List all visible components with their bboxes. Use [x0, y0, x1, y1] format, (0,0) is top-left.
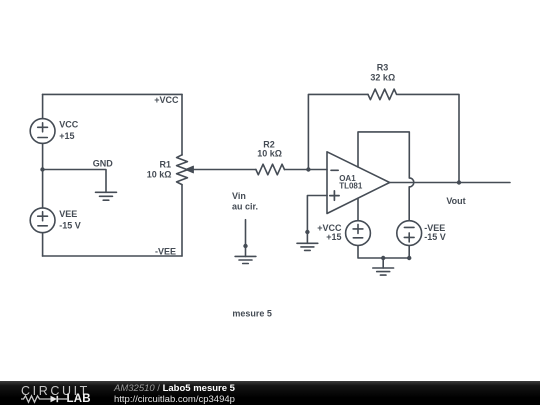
svg-text:-15 V: -15 V	[59, 220, 81, 230]
wire bottom rail left loop	[43, 255, 183, 257]
CircuitLab logo zigzag and diode	[21, 394, 68, 404]
op-amp minus input glyph	[331, 169, 338, 171]
resistor R1 10k potentiometer zigzag	[177, 155, 188, 185]
svg-text:+15: +15	[326, 232, 341, 242]
svg-text:VEE: VEE	[59, 209, 77, 219]
CircuitLab logo CIRCUIT	[21, 384, 90, 398]
ground at supply rail	[373, 258, 394, 275]
CircuitLab banner	[0, 381, 540, 405]
node dot Vin ground	[243, 244, 247, 248]
node junction at output	[457, 180, 461, 184]
wire hop over output wire	[409, 178, 414, 187]
potentiometer R1 wiper arrow	[185, 166, 256, 173]
svg-text:au cir.: au cir.	[232, 202, 258, 212]
svg-text:+VCC: +VCC	[154, 95, 179, 105]
voltage source V4 -VEE -15 V	[397, 221, 422, 246]
banner url text	[114, 394, 235, 405]
wire left rail (VCC/VEE column)	[42, 94, 44, 256]
svg-text:32 kΩ: 32 kΩ	[370, 72, 395, 82]
CircuitLab logo LAB	[67, 393, 91, 405]
svg-text:+15: +15	[59, 131, 74, 141]
voltage source V3 +VCC +15	[346, 221, 371, 246]
wire top rail left loop	[43, 93, 183, 95]
node dot supply rail right corner	[407, 256, 411, 260]
svg-text:10 kΩ: 10 kΩ	[147, 170, 172, 180]
resistor R2 10k zigzag	[256, 164, 285, 175]
node dot supply rail at ground	[381, 256, 385, 260]
wire R2 to op-amp inverting input	[285, 169, 328, 171]
wire GND branch	[43, 170, 107, 193]
svg-text:GND: GND	[93, 158, 114, 168]
ground at non-inverting input	[297, 232, 318, 250]
svg-text:10 kΩ: 10 kΩ	[257, 149, 282, 159]
svg-text:Vout: Vout	[446, 196, 465, 206]
op-amp plus input glyph	[330, 191, 339, 200]
svg-text:-15 V: -15 V	[424, 232, 446, 242]
wire R3 feedback left vertical	[308, 94, 368, 169]
wire supply bottom rail	[358, 246, 409, 259]
wire op-amp V- pin to +VCC source	[357, 198, 359, 220]
voltage source V2 VEE -15 V	[30, 208, 55, 233]
svg-text:R1: R1	[159, 160, 171, 170]
svg-text:TL081: TL081	[339, 182, 363, 191]
svg-text:VCC: VCC	[59, 120, 79, 130]
resistor R3 32k zigzag	[368, 89, 397, 100]
svg-text:mesure 5: mesure 5	[232, 308, 272, 318]
wire hop to -VEE source	[408, 187, 410, 221]
wire op-amp V+ pin routing over output	[358, 132, 409, 178]
wire R3 feedback right vertical to output	[397, 94, 459, 182]
wire op-amp non-inverting input to ground	[307, 196, 327, 233]
node dot above ground (non-inverting input)	[305, 230, 309, 234]
svg-text:-VEE: -VEE	[155, 246, 176, 256]
ground GND symbol	[96, 192, 117, 200]
svg-text:Vin: Vin	[232, 191, 246, 201]
node junction at left rail GND branch	[40, 167, 44, 171]
banner title text	[114, 383, 235, 394]
voltage source V1 VCC +15	[30, 119, 55, 144]
wire Vin terminal	[245, 220, 247, 246]
node junction at inverting input	[306, 167, 310, 171]
svg-text:R3: R3	[377, 63, 389, 73]
ground at Vin	[235, 246, 256, 264]
wire right rail of left loop (R1 column)	[181, 94, 183, 256]
op-amp OA1 TL081 triangle	[327, 152, 390, 214]
wire output to Vout	[390, 182, 510, 184]
